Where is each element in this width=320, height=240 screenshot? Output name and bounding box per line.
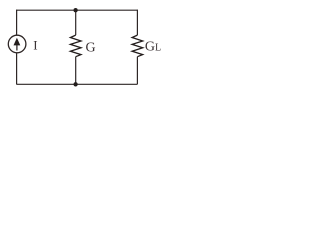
wire left upper: [16, 10, 18, 35]
current source I1 arrow: [16, 45, 18, 51]
wire right lower: [136, 57, 138, 85]
wire middle branch upper: [75, 10, 77, 35]
current source I1 circle: [8, 35, 26, 53]
wire top: [16, 9, 137, 11]
svg-text:GL: GL: [145, 39, 161, 54]
resistor G zigzag: [70, 35, 81, 57]
resistor GL zigzag: [132, 35, 143, 57]
wire middle branch lower: [75, 57, 77, 85]
wire bottom: [16, 83, 137, 85]
junction dot bottom node: [73, 82, 77, 86]
svg-text:I: I: [33, 37, 37, 52]
wire right upper: [136, 10, 138, 35]
svg-text:G: G: [86, 40, 96, 55]
wire left lower: [16, 53, 18, 84]
junction dot top node: [73, 8, 77, 12]
